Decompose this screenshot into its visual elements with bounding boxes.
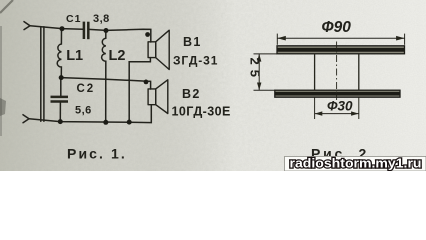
svg-text:C1: C1 bbox=[66, 13, 81, 25]
svg-text:3,8: 3,8 bbox=[93, 13, 110, 25]
svg-text:radioshtorm.my1.ru: radioshtorm.my1.ru bbox=[290, 157, 422, 171]
svg-text:L1: L1 bbox=[66, 48, 83, 64]
svg-text:Рис. 1.: Рис. 1. bbox=[67, 145, 127, 161]
svg-text:C2: C2 bbox=[77, 83, 96, 95]
svg-text:L2: L2 bbox=[109, 48, 126, 64]
svg-text:5,6: 5,6 bbox=[75, 105, 92, 117]
svg-text:Ф30: Ф30 bbox=[327, 98, 353, 113]
svg-text:ЗГД-31: ЗГД-31 bbox=[173, 54, 218, 68]
svg-text:B1: B1 bbox=[183, 35, 202, 49]
svg-text:10ГД-30Е: 10ГД-30Е bbox=[172, 105, 231, 119]
svg-text:B2: B2 bbox=[182, 87, 201, 101]
svg-text:Ф90: Ф90 bbox=[322, 19, 352, 36]
svg-text:25: 25 bbox=[248, 58, 263, 82]
